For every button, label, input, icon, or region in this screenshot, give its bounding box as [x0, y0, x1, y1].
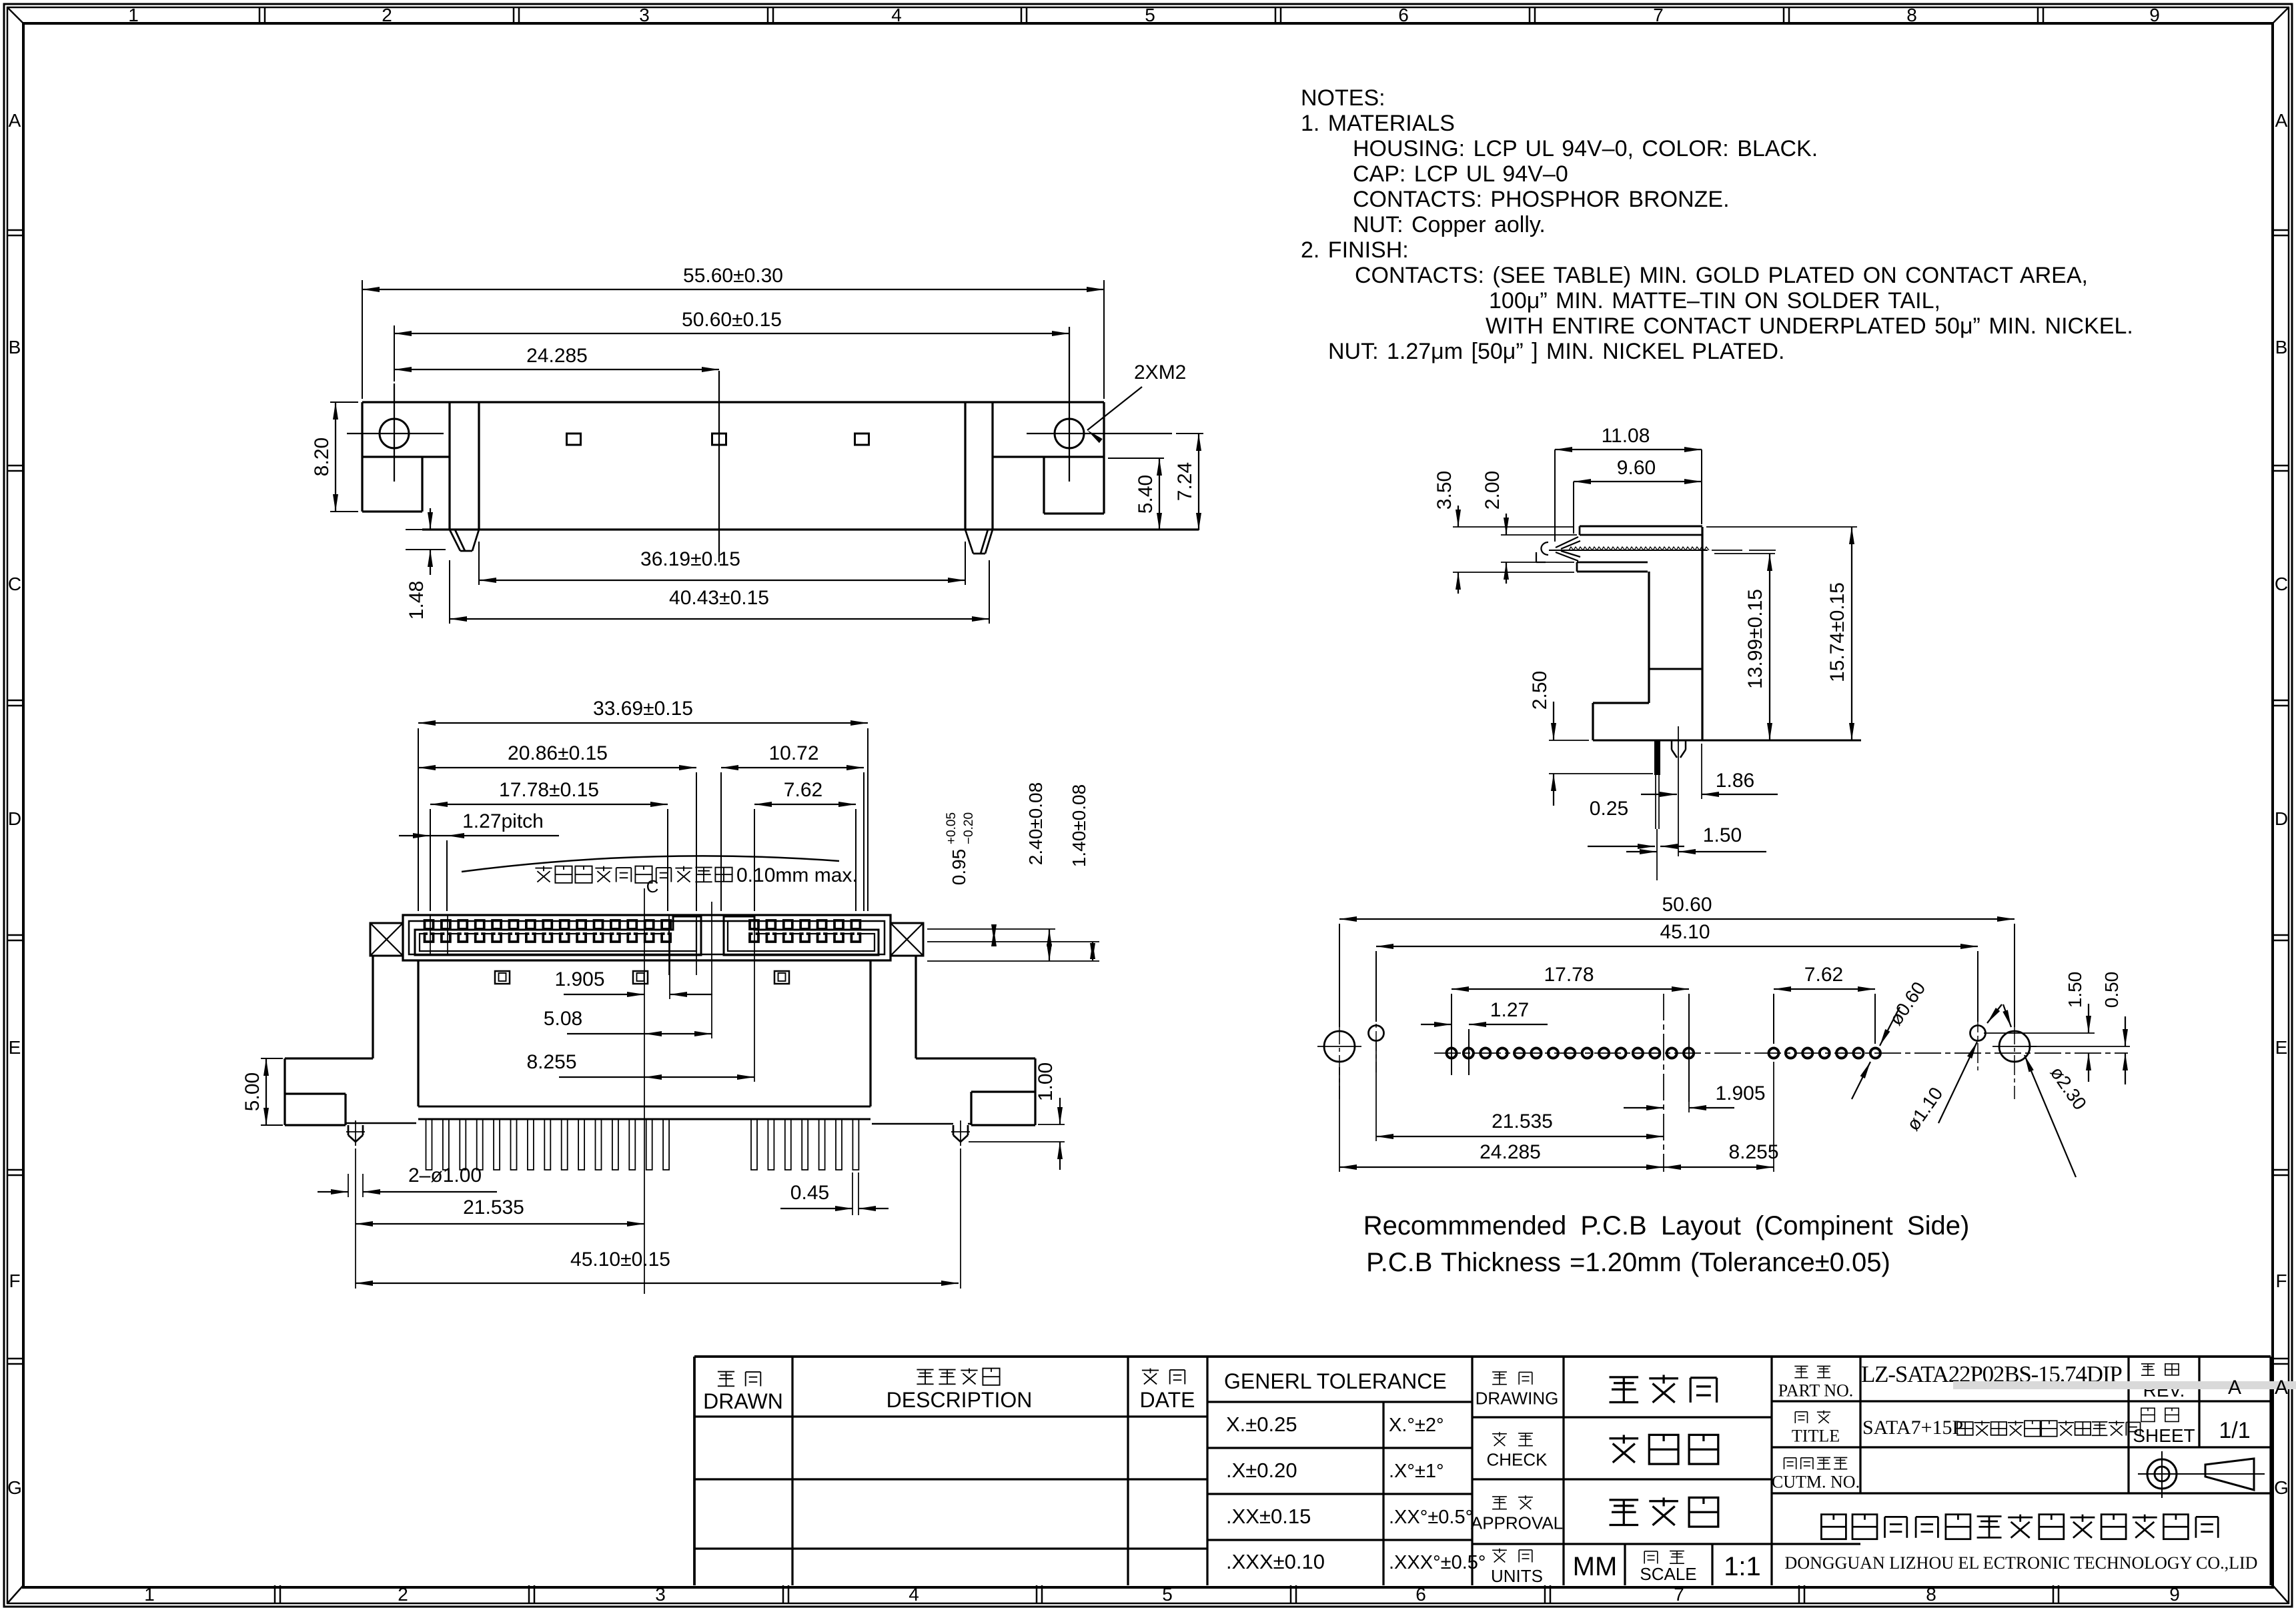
svg-text:C: C [2275, 574, 2288, 594]
svg-text:1.40±0.08: 1.40±0.08 [1069, 784, 1089, 867]
svg-text:100μ” MIN. MATTE–TIN ON SO: 100μ” MIN. MATTE–TIN ON SOLDER TAIL, [1489, 288, 1940, 313]
svg-text:DONGGUAN LIZHOU EL ECTRONIC TE: DONGGUAN LIZHOU EL ECTRONIC TECHNOLOGY C… [1785, 1553, 2258, 1573]
svg-text:5.40: 5.40 [1135, 475, 1157, 514]
svg-text:DESCRIPTION: DESCRIPTION [887, 1388, 1033, 1412]
svg-text:APPROVAL: APPROVAL [1471, 1513, 1563, 1533]
svg-text:NUT: 1.27μm [50μ” ] MIN. N: NUT: 1.27μm [50μ” ] MIN. NICKEL PLATED. [1328, 339, 1784, 364]
svg-text:.XX°±0.5°: .XX°±0.5° [1389, 1507, 1473, 1528]
svg-text:1:1: 1:1 [1724, 1552, 1761, 1581]
svg-text:1.905: 1.905 [1715, 1082, 1765, 1104]
svg-text:SHEET: SHEET [2133, 1425, 2195, 1446]
svg-text:2.40±0.08: 2.40±0.08 [1025, 782, 1046, 865]
svg-text:CUTM. NO.: CUTM. NO. [1772, 1473, 1860, 1492]
svg-text:2XM2: 2XM2 [1134, 361, 1186, 383]
svg-text:−0.20: −0.20 [962, 812, 976, 844]
svg-text:UNITS: UNITS [1491, 1566, 1543, 1586]
svg-text:D: D [8, 808, 21, 829]
svg-text:6: 6 [1398, 5, 1409, 25]
svg-text:6: 6 [1415, 1584, 1426, 1605]
svg-text:4: 4 [909, 1584, 919, 1605]
svg-text:9: 9 [2169, 1584, 2180, 1605]
svg-text:X.±0.25: X.±0.25 [1226, 1413, 1297, 1436]
svg-text:13.99±0.15: 13.99±0.15 [1744, 589, 1766, 689]
svg-text:E: E [9, 1037, 21, 1058]
svg-text:7.24: 7.24 [1174, 462, 1196, 501]
svg-text:3: 3 [639, 5, 650, 25]
svg-text:A: A [2275, 1377, 2288, 1399]
svg-text:8: 8 [1926, 1584, 1936, 1605]
svg-text:24.285: 24.285 [1480, 1141, 1541, 1163]
svg-text:0.45: 0.45 [790, 1182, 829, 1204]
svg-text:SCALE: SCALE [1640, 1564, 1696, 1584]
svg-text:NUT: Copper aolly.: NUT: Copper aolly. [1353, 212, 1546, 237]
svg-text:7: 7 [1674, 1584, 1684, 1605]
svg-text:C: C [8, 574, 21, 594]
svg-text:50.60±0.15: 50.60±0.15 [682, 309, 782, 331]
svg-text:1: 1 [128, 5, 139, 25]
svg-text:2. FINISH:: 2. FINISH: [1301, 237, 1409, 263]
svg-text:1/1: 1/1 [2219, 1418, 2250, 1443]
svg-text:SATA7+15P: SATA7+15P [1862, 1417, 1963, 1439]
svg-text:NOTES:: NOTES: [1301, 85, 1385, 111]
svg-text:1.48: 1.48 [406, 581, 428, 620]
svg-text:2–ø1.00: 2–ø1.00 [408, 1164, 482, 1186]
svg-text:0.25: 0.25 [1590, 798, 1628, 820]
svg-text:.XXX±0.10: .XXX±0.10 [1226, 1550, 1325, 1573]
svg-text:17.78±0.15: 17.78±0.15 [499, 779, 599, 801]
svg-text:1: 1 [144, 1584, 155, 1605]
svg-text:3.50: 3.50 [1433, 471, 1456, 510]
svg-text:2.00: 2.00 [1482, 471, 1504, 510]
svg-text:+0.05: +0.05 [945, 812, 959, 844]
svg-text:5: 5 [1145, 5, 1155, 25]
svg-text:7: 7 [1653, 5, 1664, 25]
svg-text:9.60: 9.60 [1617, 457, 1656, 479]
svg-text:0.50: 0.50 [2101, 972, 2122, 1008]
svg-text:.XXX°±0.5°: .XXX°±0.5° [1389, 1552, 1486, 1573]
svg-text:15.74±0.15: 15.74±0.15 [1826, 582, 1848, 682]
svg-text:0.95: 0.95 [949, 849, 969, 886]
svg-text:10.72: 10.72 [768, 742, 818, 764]
svg-text:A: A [2228, 1377, 2241, 1399]
svg-text:11.08: 11.08 [1602, 425, 1650, 447]
svg-text:21.535: 21.535 [1492, 1110, 1553, 1132]
svg-text:HOUSING: LCP UL 94V–0, COL: HOUSING: LCP UL 94V–0, COLOR: BLACK. [1353, 136, 1818, 161]
svg-text:33.69±0.15: 33.69±0.15 [593, 698, 693, 720]
svg-text:1.27pitch: 1.27pitch [462, 810, 544, 832]
svg-text:MM: MM [1573, 1552, 1618, 1581]
svg-text:CHECK: CHECK [1486, 1450, 1548, 1470]
svg-text:2: 2 [382, 5, 392, 25]
svg-text:55.60±0.30: 55.60±0.30 [683, 265, 783, 287]
svg-text:F: F [2275, 1271, 2287, 1291]
svg-text:24.285: 24.285 [526, 345, 588, 367]
svg-text:DATE: DATE [1140, 1388, 1195, 1412]
svg-text:B: B [9, 337, 21, 357]
svg-text:8.255: 8.255 [1728, 1141, 1778, 1163]
svg-text:.X°±1°: .X°±1° [1389, 1461, 1444, 1482]
svg-text:TITLE: TITLE [1792, 1427, 1840, 1446]
svg-text:D: D [2275, 808, 2288, 829]
svg-text:5: 5 [1162, 1584, 1173, 1605]
svg-text:4: 4 [891, 5, 902, 25]
svg-text:A: A [9, 110, 21, 131]
svg-text:5.00: 5.00 [241, 1072, 263, 1111]
svg-text:8.255: 8.255 [526, 1051, 576, 1073]
svg-text:20.86±0.15: 20.86±0.15 [508, 742, 608, 764]
svg-text:45.10: 45.10 [1660, 921, 1710, 943]
svg-text:1.00: 1.00 [1035, 1062, 1057, 1101]
svg-text:7.62: 7.62 [784, 779, 822, 801]
svg-text:45.10±0.15: 45.10±0.15 [570, 1249, 670, 1271]
svg-text:G: G [7, 1477, 22, 1498]
svg-text:7.62: 7.62 [1804, 964, 1843, 986]
svg-text:GENERL TOLERANCE: GENERL TOLERANCE [1224, 1369, 1447, 1393]
svg-text:A: A [2275, 110, 2288, 131]
svg-text:.XX±0.15: .XX±0.15 [1226, 1505, 1311, 1528]
svg-text:1.50: 1.50 [2065, 972, 2085, 1008]
svg-text:E: E [2275, 1037, 2288, 1058]
svg-text:DRAWN: DRAWN [703, 1389, 783, 1413]
svg-text:50.60: 50.60 [1662, 894, 1712, 916]
svg-text:8: 8 [1906, 5, 1917, 25]
svg-text:3: 3 [655, 1584, 666, 1605]
svg-text:40.43±0.15: 40.43±0.15 [669, 587, 769, 609]
svg-text:36.19±0.15: 36.19±0.15 [640, 548, 740, 570]
svg-text:X.°±2°: X.°±2° [1389, 1415, 1444, 1436]
svg-text:9: 9 [2149, 5, 2160, 25]
svg-text:WITH ENTIRE CONTACT UNDERPL: WITH ENTIRE CONTACT UNDERPLATED 50μ” MIN… [1486, 313, 2133, 339]
svg-text:.X±0.20: .X±0.20 [1226, 1459, 1297, 1482]
svg-text:DRAWING: DRAWING [1476, 1389, 1559, 1409]
svg-text:1.86: 1.86 [1716, 770, 1754, 792]
svg-text:21.535: 21.535 [463, 1196, 524, 1219]
svg-text:17.78: 17.78 [1544, 964, 1594, 986]
svg-text:CONTACTS: (SEE TABLE) MIN.: CONTACTS: (SEE TABLE) MIN. GOLD PLATED O… [1355, 263, 2088, 288]
svg-text:F: F [9, 1271, 20, 1291]
svg-text:CONTACTS: PHOSPHOR BRONZE.: CONTACTS: PHOSPHOR BRONZE. [1353, 187, 1730, 212]
svg-text:B: B [2275, 337, 2288, 357]
svg-text:G: G [2274, 1477, 2289, 1498]
svg-text:2.50: 2.50 [1529, 671, 1551, 710]
svg-text:8.20: 8.20 [311, 438, 333, 476]
svg-text:2: 2 [398, 1584, 408, 1605]
svg-text:5.08: 5.08 [544, 1008, 582, 1030]
svg-text:1.905: 1.905 [554, 968, 604, 990]
svg-text:1.50: 1.50 [1703, 824, 1742, 846]
svg-text:Recommmended P.C.B Layout (: Recommmended P.C.B Layout (Compinent Sid… [1363, 1211, 1970, 1241]
svg-text:1. MATERIALS: 1. MATERIALS [1301, 111, 1455, 136]
svg-text:P.C.B Thickness =1.20mm (To: P.C.B Thickness =1.20mm (Tolerance±0.05) [1366, 1248, 1890, 1277]
svg-text:CAP: LCP UL 94V–0: CAP: LCP UL 94V–0 [1353, 161, 1568, 187]
svg-text:PART NO.: PART NO. [1778, 1381, 1854, 1401]
svg-text:1.27: 1.27 [1490, 999, 1529, 1021]
